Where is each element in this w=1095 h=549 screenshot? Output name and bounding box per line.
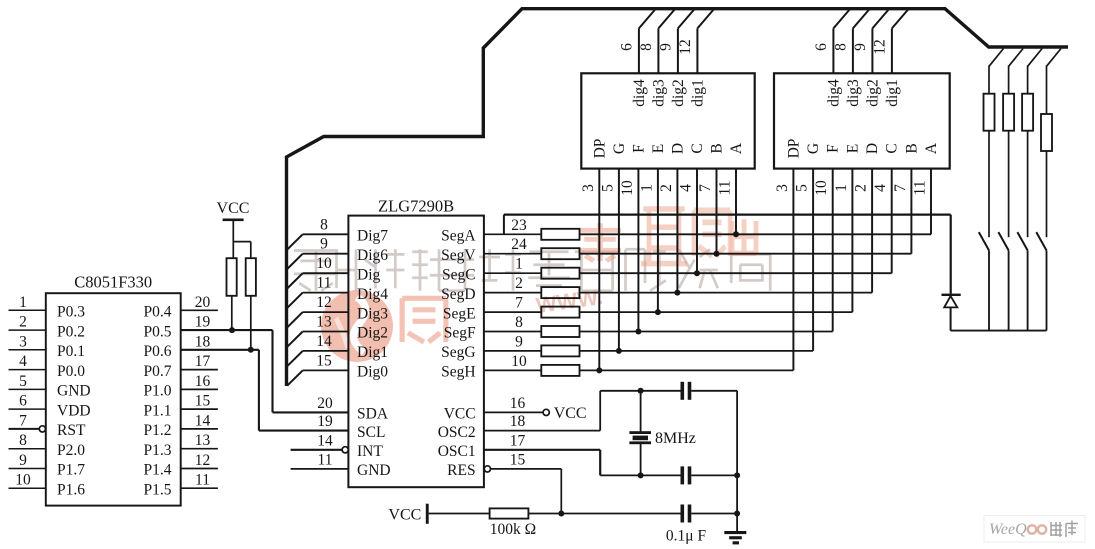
J2 label dig4 (825, 79, 842, 107)
U2 pin 17 name P0.7 (144, 363, 172, 380)
svg-text:C: C (689, 143, 706, 153)
U1 pin 16 (VCC) wire (484, 395, 543, 413)
wire SDA route P0.5 to ZLG SDA (273, 330, 349, 412)
label 8MHz (655, 430, 696, 447)
U2 pin 20 (P0.4) wire (181, 294, 218, 311)
svg-text:SegF: SegF (444, 325, 476, 342)
U2 pin 19 (P0.5) wire (181, 314, 273, 331)
J1 top pin number 8 (638, 43, 655, 51)
svg-text:19: 19 (195, 314, 211, 331)
J2 top pin number 9 (852, 43, 869, 51)
U1 pin 20 (SDA) name (317, 395, 389, 423)
J2 label dig3 (845, 79, 862, 107)
power VCC terminal (reset) (388, 504, 428, 524)
J1 label D (669, 143, 686, 154)
switch S4 (1036, 232, 1046, 250)
svg-text:13: 13 (195, 432, 211, 449)
wire J1 pin 10 column (637, 169, 639, 332)
svg-text:12: 12 (316, 294, 332, 311)
resistor R10 (segment SegH) (541, 365, 579, 376)
svg-text:dig1: dig1 (884, 79, 901, 107)
svg-text:D: D (669, 143, 686, 154)
J1 bottom pin number 11 (717, 181, 734, 196)
J1 label A (728, 142, 745, 154)
svg-text:24: 24 (511, 236, 527, 253)
U1 pin 10 (Dig) wire to bus (287, 255, 348, 288)
wire J1 pin 7 column (716, 169, 718, 254)
svg-text:23: 23 (511, 217, 527, 234)
svg-text:C: C (884, 143, 901, 153)
svg-text:OSC1: OSC1 (438, 443, 476, 460)
wire osc bottom rail (600, 474, 680, 476)
ground (724, 531, 746, 544)
U1 pin 17 (OSC1) wire (484, 432, 600, 450)
J2 bottom pin number 1 (833, 184, 850, 192)
svg-text:5: 5 (794, 184, 811, 192)
svg-text:10: 10 (15, 472, 31, 489)
U1 pin 12 (Dig3) wire to bus (287, 294, 348, 327)
resistor R7 (segment SegE) (541, 307, 579, 318)
J1 top pin 6 (dig4) wire (639, 10, 655, 74)
wire key column 4 lower (1046, 250, 1048, 330)
wire R11 to node RES (528, 513, 561, 515)
wire key common rail (951, 330, 1047, 332)
svg-text:14: 14 (195, 412, 211, 429)
J1 top pin number 9 (657, 43, 674, 51)
diode D1 (942, 294, 961, 331)
U2 pin 5 (GND) wire (9, 373, 46, 390)
U2 pin 14 name P1.2 (144, 422, 172, 439)
U2 pin 6 (VDD) wire (9, 393, 46, 410)
svg-text:4: 4 (678, 184, 695, 192)
U1 pin name SegV (441, 247, 476, 264)
IC U2 label C8051F330 (74, 273, 152, 292)
U1 pin 9 (Dig6) wire to bus (287, 236, 348, 269)
junction node seg row F (635, 329, 641, 335)
svg-text:SDA: SDA (357, 406, 389, 423)
U2 pin 12 (P1.4) wire (181, 452, 218, 469)
J2 top pin 6 (dig4) wire (833, 10, 849, 74)
svg-text:15: 15 (510, 451, 526, 468)
svg-text:P0.5: P0.5 (144, 323, 172, 340)
J2 label E (844, 144, 861, 153)
J1 bottom pin number 2 (658, 184, 675, 192)
svg-text:SCL: SCL (357, 424, 385, 441)
U1 pin 8 (SegF) wire (484, 314, 541, 332)
U1 pin 18 (OSC2) wire (484, 413, 600, 431)
svg-text:2: 2 (19, 314, 27, 331)
U2 pin 2 name P0.2 (57, 323, 85, 340)
junction node P0.5/SDA (229, 327, 235, 333)
svg-text:8: 8 (832, 43, 849, 51)
J1 label dig2 (670, 79, 687, 107)
U1 pin 11 (GND) wire (291, 451, 349, 469)
svg-text:dig2: dig2 (864, 79, 881, 107)
J2 bottom pin number 11 (912, 181, 929, 196)
U1 pin 23 (SegA) wire (484, 217, 541, 235)
svg-text:P0.2: P0.2 (57, 323, 85, 340)
resistor R3 (segment SegA) (541, 229, 579, 240)
label 0.1uF (666, 528, 707, 545)
svg-text:P0.1: P0.1 (57, 343, 85, 360)
junction node P0.6/SCL (248, 347, 254, 353)
U2 pin 18 name P0.6 (144, 343, 172, 360)
U2 pin 8 (P2.0) wire (9, 432, 46, 449)
J2 top pin number 6 (813, 43, 830, 51)
wire segment row SegV (580, 253, 912, 255)
svg-text:5: 5 (19, 373, 27, 390)
wire J2 pin 1 column (851, 169, 853, 313)
J1 top pin number 12 (677, 39, 694, 55)
J1 label dig1 (689, 79, 706, 107)
svg-text:8: 8 (638, 43, 655, 51)
power VCC symbol (pull-ups) (217, 200, 251, 258)
svg-text:17: 17 (195, 353, 211, 370)
wire J1 pin 11 column (735, 169, 737, 235)
U1 pin 14 (Dig1) wire to bus (287, 333, 348, 366)
resistor R15 (key 4) (1041, 114, 1052, 151)
svg-text:10: 10 (813, 180, 830, 196)
capacitor C3 0.1uF (681, 505, 738, 523)
wire key column 3 lower (1027, 250, 1029, 330)
svg-text:VCC: VCC (444, 406, 476, 423)
J2 top pin 8 (dig3) wire (853, 10, 869, 74)
svg-text:7: 7 (19, 412, 27, 429)
display connector J1 body (581, 73, 754, 168)
svg-text:11: 11 (912, 181, 929, 196)
svg-text:P1.1: P1.1 (144, 402, 172, 419)
svg-text:2: 2 (853, 184, 870, 192)
J2 label dig2 (864, 79, 881, 107)
U2 pin 4 (P0.0) wire (9, 353, 46, 370)
U1 pin 14 (INT) name (357, 443, 383, 460)
svg-text:8: 8 (19, 432, 27, 449)
watermark: gray company text row (294, 249, 770, 291)
svg-text:3: 3 (580, 184, 597, 192)
svg-text:9: 9 (19, 452, 27, 469)
svg-text:dig3: dig3 (650, 79, 667, 107)
svg-text:9: 9 (657, 43, 674, 51)
svg-text:VCC: VCC (217, 200, 250, 217)
J2 label F (825, 144, 842, 153)
U2 pin 13 (P1.3) wire (181, 432, 218, 449)
svg-text:SegA: SegA (441, 228, 476, 245)
wire J1 pin 4 column (696, 169, 698, 274)
wire key column 4 from bus (1047, 49, 1062, 115)
svg-text:Dig3: Dig3 (357, 305, 388, 322)
svg-text:100k Ω: 100k Ω (490, 521, 536, 538)
svg-text:P1.7: P1.7 (57, 462, 85, 479)
U2 pin 4 name P0.0 (57, 363, 85, 380)
J2 top pin 12 (dig1) wire (892, 10, 908, 74)
U1 pin name Dig6 (357, 247, 388, 264)
wire segment row SegF (580, 331, 833, 333)
U1 pin 1 (SegC) wire (484, 256, 541, 274)
resistor R8 (segment SegF) (541, 326, 579, 337)
U2 pin 11 name P1.5 (144, 481, 172, 498)
svg-text:11: 11 (318, 451, 333, 468)
wire key column 1 mid (988, 131, 990, 238)
junction node seg row B (714, 251, 720, 257)
J2 top pin number 12 (871, 39, 888, 55)
wire segment row SegE (580, 311, 853, 313)
wire J2 pin 11 column (930, 169, 932, 235)
wire R1 to P0.5 (231, 296, 233, 330)
U1 pin 13 (Dig2) wire to bus (287, 314, 348, 347)
U1 pin 2 (SegD) wire (484, 275, 541, 293)
svg-text:12: 12 (195, 452, 211, 469)
J2 bottom pin number 5 (794, 184, 811, 192)
resistor R11 100k (490, 508, 529, 518)
svg-text:P1.6: P1.6 (57, 481, 85, 498)
svg-text:0.1μ F: 0.1μ F (666, 528, 707, 545)
wire OSC1 drop (599, 450, 601, 476)
svg-text:dig2: dig2 (670, 79, 687, 107)
svg-text:6: 6 (813, 43, 830, 51)
J1 label E (650, 144, 667, 153)
svg-text:B: B (709, 143, 726, 153)
svg-text:F: F (825, 144, 842, 153)
svg-text:Dig2: Dig2 (357, 325, 388, 342)
J2 bottom pin number 7 (892, 184, 909, 192)
svg-text:P1.5: P1.5 (144, 481, 172, 498)
resistor R1 (SDA pull-up) (227, 258, 237, 296)
J2 bottom pin number 3 (774, 184, 791, 192)
U1 pin name SegE (443, 305, 476, 322)
svg-text:P0.7: P0.7 (144, 363, 172, 380)
wire J2 pin 3 column (792, 169, 794, 371)
J1 top pin 9 (dig2) wire (678, 10, 694, 74)
U1 pin 19 (SCL) name (317, 413, 385, 441)
U2 pin 10 (P1.6) wire (9, 472, 46, 489)
U2 pin 2 (P0.2) wire (9, 314, 46, 331)
U2 pin 9 name P1.7 (57, 462, 85, 479)
svg-text:P0.0: P0.0 (57, 363, 85, 380)
junction node XTAL bottom (638, 472, 644, 478)
svg-text:18: 18 (510, 413, 526, 430)
U1 pin name Dig0 (357, 364, 388, 381)
svg-text:G: G (805, 143, 822, 154)
J1 bottom pin number 5 (599, 184, 616, 192)
J1 label B (709, 143, 726, 153)
svg-text:VCC: VCC (388, 507, 421, 524)
wire key column 1 from bus (989, 49, 1004, 94)
J1 bottom pin number 7 (697, 184, 714, 192)
svg-text:P0.4: P0.4 (144, 304, 172, 321)
U1 pin name SegA (441, 228, 476, 245)
J2 label dig1 (884, 79, 901, 107)
svg-text:ZLG7290B: ZLG7290B (378, 197, 454, 216)
svg-text:1: 1 (638, 184, 655, 192)
U1 pin 11 (Dig4) wire to bus (287, 275, 348, 308)
svg-text:P1.0: P1.0 (144, 383, 172, 400)
U1 pin name SegC (442, 266, 476, 283)
svg-text:7: 7 (515, 295, 523, 312)
svg-text:INT: INT (357, 443, 383, 460)
svg-text:12: 12 (677, 39, 694, 55)
svg-text:1: 1 (515, 256, 523, 273)
svg-text:20: 20 (317, 395, 333, 412)
svg-text:11: 11 (317, 275, 332, 292)
svg-text:16: 16 (510, 395, 526, 412)
wire ground rail (736, 391, 738, 531)
svg-text:Dig: Dig (357, 266, 381, 283)
svg-text:14: 14 (317, 432, 333, 449)
U1 pin 8 (Dig7) wire to bus (287, 216, 348, 249)
J1 label G (611, 143, 628, 154)
wire key return line (504, 215, 951, 294)
U1 pin name Dig7 (357, 228, 388, 245)
U2 pin 7 name RST (57, 422, 86, 439)
wire J1 pin 2 column (676, 169, 678, 293)
switch S1 (979, 232, 989, 250)
svg-text:19: 19 (317, 413, 333, 430)
svg-text:9: 9 (852, 43, 869, 51)
svg-text:P1.2: P1.2 (144, 422, 172, 439)
wire key column 2 mid (1008, 131, 1010, 238)
svg-text:G: G (611, 143, 628, 154)
svg-text:10: 10 (511, 353, 527, 370)
U1 pin name SegH (441, 364, 475, 381)
watermark: pink logo cluster (321, 209, 756, 362)
resistor R4 (segment SegV) (541, 248, 579, 259)
J2 label A (923, 142, 940, 154)
svg-text:18: 18 (195, 333, 211, 350)
svg-text:P0.3: P0.3 (57, 304, 85, 321)
power VCC terminal at pin 16 (543, 405, 587, 422)
svg-text:9: 9 (515, 333, 523, 350)
J2 top pin number 8 (832, 43, 849, 51)
svg-text:9: 9 (320, 236, 328, 253)
resistor R12 (key 1) (984, 94, 995, 131)
junction node C3/gnd rail (734, 511, 740, 517)
wire segment row SegH (580, 369, 794, 371)
U1 pin name VCC (444, 406, 476, 423)
watermark: WeeQoo badge (984, 516, 1085, 543)
resistor R9 (segment SegG) (541, 345, 579, 356)
U1 pin name Dig4 (357, 286, 388, 303)
J2 bottom pin number 10 (813, 180, 830, 196)
U2 pin 12 name P1.4 (144, 462, 172, 479)
svg-text:10: 10 (316, 255, 332, 272)
wire key column 1 lower (988, 250, 990, 330)
svg-text:3: 3 (19, 333, 27, 350)
junction node seg row DP (596, 367, 602, 373)
svg-text:D: D (864, 143, 881, 154)
svg-text:B: B (903, 143, 920, 153)
svg-text:P0.6: P0.6 (144, 343, 172, 360)
svg-text:SegD: SegD (441, 286, 475, 303)
J1 top pin 12 (dig1) wire (697, 10, 713, 74)
U2 pin 9 (P1.7) wire (9, 452, 46, 469)
svg-text:DP: DP (591, 139, 608, 159)
J1 bottom pin number 3 (580, 184, 597, 192)
svg-text:A: A (728, 142, 745, 154)
svg-text:Dig0: Dig0 (357, 364, 388, 381)
svg-text:SegV: SegV (441, 247, 476, 264)
wire key column 4 mid (1046, 151, 1048, 237)
J1 bottom pin number 4 (678, 184, 695, 192)
svg-text:7: 7 (697, 184, 714, 192)
svg-text:10: 10 (619, 180, 636, 196)
U2 pin 13 name P1.3 (144, 442, 172, 459)
wire J2 pin 4 column (891, 169, 893, 274)
J1 label dig3 (650, 79, 667, 107)
wire J2 pin 2 column (871, 169, 873, 293)
U1 pin name RES (447, 462, 475, 479)
J1 label DP (591, 139, 608, 159)
svg-text:SegH: SegH (441, 364, 475, 381)
U2 pin 14 (P1.2) wire (181, 412, 218, 429)
switch S3 (1017, 232, 1027, 250)
svg-text:5: 5 (599, 184, 616, 192)
J1 top pin 8 (dig3) wire (658, 10, 674, 74)
U1 pin 24 (SegV) wire (484, 236, 541, 254)
wire J1 pin 3 column (598, 169, 600, 371)
svg-text:C8051F330: C8051F330 (74, 273, 152, 292)
svg-text:2: 2 (658, 184, 675, 192)
wire key column 3 from bus (1028, 49, 1043, 94)
U1 pin name Dig2 (357, 325, 388, 342)
J2 label D (864, 143, 881, 154)
switch S2 (998, 232, 1008, 250)
svg-text:12: 12 (871, 39, 888, 55)
svg-text:8: 8 (515, 314, 523, 331)
svg-text:SegE: SegE (443, 305, 476, 322)
svg-text:dig3: dig3 (845, 79, 862, 107)
wire key column 2 lower (1008, 250, 1010, 330)
U1 pin 7 (SegE) wire (484, 295, 541, 313)
svg-text:SegC: SegC (442, 266, 476, 283)
U1 pin name SegG (441, 344, 475, 361)
svg-text:P1.3: P1.3 (144, 442, 172, 459)
U2 pin 19 name P0.5 (144, 323, 172, 340)
J2 label DP (785, 139, 802, 159)
junction node C2/gnd rail (734, 472, 740, 478)
U1 pin 14 (INT) wire (291, 432, 349, 453)
J1 label F (630, 144, 647, 153)
junction node RES/RC (558, 511, 564, 517)
wire node to C3 (561, 513, 680, 515)
junction node seg row G (616, 348, 622, 354)
svg-text:E: E (844, 144, 861, 153)
junction node seg row C (694, 270, 700, 276)
wire J2 pin 5 column (812, 169, 814, 351)
wire J1 pin 5 column (618, 169, 620, 351)
wire SCL route P0.6 to ZLG SCL (259, 350, 349, 431)
svg-text:WeeQ: WeeQ (989, 521, 1027, 538)
J1 bottom pin number 10 (619, 180, 636, 196)
junction node seg row D (674, 290, 680, 296)
svg-text:1: 1 (19, 294, 27, 311)
svg-text:6: 6 (618, 43, 635, 51)
label 100k ohm (490, 521, 536, 538)
svg-text:3: 3 (774, 184, 791, 192)
J1 top pin number 6 (618, 43, 635, 51)
U1 pin 10 (SegH) wire (484, 353, 541, 371)
wire osc top rail (600, 390, 680, 392)
bus wire (digit lines) (287, 9, 1069, 386)
U1 pin name OSC1 (438, 443, 476, 460)
capacitor C2 (OSC1) (681, 466, 738, 484)
svg-text:P1.4: P1.4 (144, 462, 172, 479)
J2 label B (903, 143, 920, 153)
svg-text:F: F (630, 144, 647, 153)
svg-text:8MHz: 8MHz (655, 430, 696, 447)
svg-text:dig4: dig4 (825, 79, 842, 107)
U1 pin 9 (SegG) wire (484, 333, 541, 351)
svg-text:8: 8 (320, 216, 328, 233)
